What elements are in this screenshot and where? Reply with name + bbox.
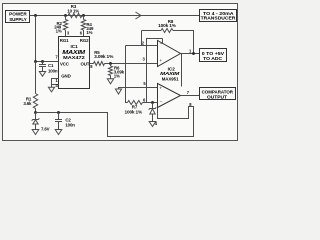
svg-text:OUT: OUT <box>81 62 90 67</box>
svg-text:10 1%: 10 1% <box>67 9 79 14</box>
resistor R7 <box>125 101 143 115</box>
resistor R6 <box>109 64 125 79</box>
ground zener D1 <box>32 130 39 135</box>
wire R7 to pin6 <box>143 102 158 104</box>
wire ref line to comparator minus <box>147 39 163 103</box>
svg-text:MAX472: MAX472 <box>63 55 85 60</box>
resistor R3 <box>67 4 82 18</box>
ground R6 <box>107 79 113 84</box>
node R5/R6 <box>109 62 112 65</box>
zener D2 <box>149 103 158 127</box>
power supply box <box>6 11 30 23</box>
wire to R1 <box>35 62 37 94</box>
op-amp IC2b triangle <box>158 84 181 108</box>
svg-text:100n: 100n <box>65 122 75 127</box>
wire ref stub into IC2a top <box>162 39 164 44</box>
comparator output box <box>200 88 236 100</box>
svg-text:RG1: RG1 <box>60 38 69 43</box>
wire R5 to pin3 of IC2 <box>105 63 158 65</box>
svg-text:3.6k: 3.6k <box>23 101 32 106</box>
wire R8 drop <box>141 31 143 46</box>
svg-text:SUPPLY: SUPPLY <box>9 17 27 22</box>
wire pin3 stub <box>65 30 67 37</box>
wire IC2a output <box>181 53 200 55</box>
node output adc <box>192 52 195 55</box>
wire vcc drop <box>35 16 37 62</box>
IC1 MAX472 box <box>59 37 90 89</box>
svg-text:TO ADC: TO ADC <box>203 56 223 61</box>
resistor R2 <box>54 16 67 34</box>
node R3 right <box>82 14 85 17</box>
node R3 left <box>64 14 67 17</box>
svg-text:TRANSDUCER: TRANSDUCER <box>201 16 237 21</box>
node zener rail <box>34 111 37 114</box>
svg-text:7.6V: 7.6V <box>41 126 50 131</box>
to adc box <box>200 49 227 62</box>
IC1 gnd pins 1,4 <box>52 78 59 88</box>
svg-text:+: + <box>159 85 162 90</box>
IC2 labels <box>160 66 179 81</box>
resistor R4 <box>81 16 94 35</box>
wire zener rail and bottom loop to pin8 <box>36 107 194 137</box>
svg-text:1%: 1% <box>114 74 120 79</box>
svg-text:100k 1%: 100k 1% <box>125 109 143 114</box>
wire pin5 row to ground <box>119 88 158 90</box>
node c2 tap <box>57 111 60 114</box>
node pin6 zener <box>151 101 154 104</box>
svg-text:MAX951: MAX951 <box>162 76 179 81</box>
capacitor C1 <box>39 62 58 74</box>
capacitor C2 <box>55 113 75 130</box>
border frame <box>3 4 238 141</box>
svg-text:1%: 1% <box>86 30 92 35</box>
svg-text:GND: GND <box>61 74 70 79</box>
node vcc left <box>34 60 37 63</box>
svg-text:+: + <box>159 58 162 63</box>
zener D1 7.6V <box>32 113 50 132</box>
svg-text:RG2: RG2 <box>80 38 89 43</box>
ground C1 <box>39 72 45 77</box>
node c1 tap <box>41 60 44 63</box>
svg-text:3.09k 1%: 3.09k 1% <box>94 54 113 59</box>
svg-text:OUTPUT: OUTPUT <box>207 94 227 99</box>
svg-text:1%: 1% <box>56 28 62 33</box>
ground IC1 <box>48 87 54 92</box>
wire pin6 stub <box>83 30 85 37</box>
wire R7 drop from pin2 row <box>126 46 128 103</box>
wire OUT pin8 of IC1 <box>90 63 94 65</box>
svg-text:C1: C1 <box>48 63 54 68</box>
wire arrowhead on rail <box>136 12 142 19</box>
svg-text:IC1: IC1 <box>71 44 79 49</box>
to transducer box <box>200 10 237 22</box>
ground C2 <box>55 130 62 135</box>
wire IC2b output <box>181 95 200 97</box>
wire hang between amps <box>181 54 183 87</box>
svg-text:−: − <box>160 100 163 105</box>
svg-text:100n: 100n <box>48 69 58 74</box>
wire pin2 row <box>126 45 158 47</box>
wire top rail <box>30 15 200 17</box>
resistor R5 <box>94 50 114 66</box>
node supply junction <box>34 14 37 17</box>
ground zener D2 pin4 <box>149 122 156 127</box>
wire vcc to IC1 pin7 <box>36 61 59 63</box>
resistor R1 <box>23 94 37 109</box>
wire R1 to node <box>35 109 37 113</box>
svg-text:100k 1%: 100k 1% <box>158 23 176 28</box>
resistor R8 <box>142 19 194 54</box>
ground pin5 <box>115 89 121 94</box>
op-amp IC2a triangle <box>158 41 181 67</box>
svg-text:VCC: VCC <box>60 61 70 66</box>
